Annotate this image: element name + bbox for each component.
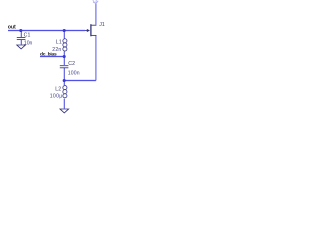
svg-text:10n: 10n <box>24 41 33 47</box>
svg-text:out: out <box>8 24 16 30</box>
svg-text:J1: J1 <box>99 22 105 28</box>
svg-text:L1: L1 <box>56 39 62 45</box>
svg-text:22n: 22n <box>52 47 61 53</box>
svg-text:L2: L2 <box>55 86 61 92</box>
svg-text:100µ: 100µ <box>50 93 63 99</box>
svg-text:100n: 100n <box>68 71 80 77</box>
svg-text:C2: C2 <box>68 61 75 67</box>
svg-text:C1: C1 <box>24 33 31 39</box>
